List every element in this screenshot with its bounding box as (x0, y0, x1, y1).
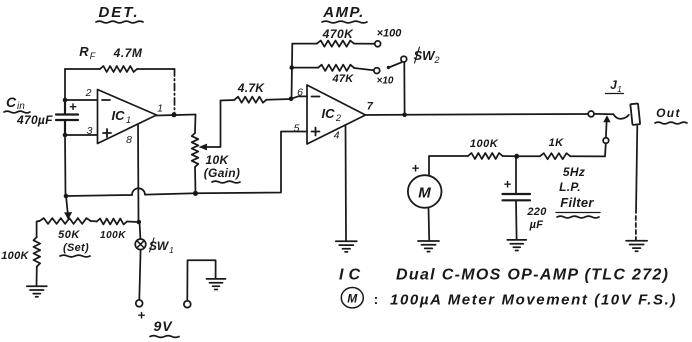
wire jack sleeve down (636, 126, 637, 213)
resistor 100K series (97, 219, 127, 225)
resistor 470K (317, 41, 354, 47)
wire bus-node arrow down to 50K wiper (66, 196, 68, 213)
wire output after circle (594, 113, 613, 115)
op-amp IC2 triangle (307, 85, 366, 144)
node IC1 pin2 junction (63, 98, 68, 103)
svg-text:1: 1 (617, 85, 621, 94)
svg-text:M: M (347, 292, 358, 306)
node LP filter junction (514, 154, 519, 159)
node bus left (64, 194, 69, 199)
svg-text:10K: 10K (206, 153, 230, 167)
svg-text:100K: 100K (1, 250, 29, 262)
wire to IC1 pin 3 (65, 134, 97, 136)
svg-text:8: 8 (126, 134, 132, 146)
wire RF feedback right vertical (dash-dot) (174, 69, 176, 114)
wire output long to jack (405, 113, 588, 116)
terminal X10 (374, 68, 380, 74)
svg-text:IC: IC (322, 106, 336, 121)
svg-text:7: 7 (367, 101, 374, 113)
svg-text:2: 2 (335, 113, 341, 123)
node SW1 junction (137, 220, 142, 225)
svg-text:1: 1 (126, 115, 131, 125)
op-amp IC2 minus input (312, 96, 320, 98)
svg-text:4.7M: 4.7M (113, 46, 143, 60)
terminal battery minus (184, 301, 191, 308)
ground meter (418, 241, 439, 252)
jack J1 body (630, 103, 640, 124)
wire Cin bottom to bus (64, 135, 67, 196)
svg-text:2: 2 (85, 87, 92, 99)
svg-text:220: 220 (526, 206, 547, 218)
node SW2 output junction (402, 113, 407, 118)
potentiometer 50K (set) (40, 218, 91, 224)
wire 4.7K left stub (221, 99, 235, 102)
resistor RF 4.7M (100, 66, 137, 72)
node IC2 pin6 junction (289, 97, 294, 102)
svg-text:(Set): (Set) (63, 242, 89, 254)
svg-text::: : (374, 291, 379, 307)
wire 470K right stub (354, 43, 375, 45)
wire meter top (429, 156, 468, 176)
ground jack sleeve (626, 241, 647, 252)
wire meter bottom (428, 208, 431, 240)
wire IC2 output (366, 114, 405, 116)
switch SW1 (circle-X) (135, 239, 146, 250)
svg-text:100K: 100K (100, 230, 126, 241)
wire bus left segment (66, 195, 132, 196)
wire 50K left bend (37, 221, 40, 237)
svg-text:470µF: 470µF (16, 113, 53, 127)
svg-text:×100: ×100 (377, 28, 403, 40)
wire 100K left to ground (36, 267, 38, 286)
resistor 100K meter (468, 153, 503, 159)
wire RF feedback top right (137, 68, 175, 70)
svg-text:L.P.: L.P. (559, 180, 581, 194)
terminal open circle LP output (603, 138, 609, 144)
svg-text:×10: ×10 (377, 76, 394, 87)
op-amp IC1 plus input (103, 129, 111, 137)
wire IC1 pin 8 down (137, 124, 140, 222)
svg-text:C: C (6, 94, 17, 110)
svg-text:1: 1 (169, 246, 173, 255)
svg-text:470K: 470K (322, 27, 355, 41)
wire IC1 output (157, 115, 196, 116)
ground 100K left (27, 286, 47, 297)
wire 4.7K right stub (267, 98, 292, 101)
wire 100K to SW1 node (127, 221, 139, 224)
capacitor Cin (56, 100, 78, 135)
svg-text:IC: IC (112, 108, 126, 123)
wire SW1 to battery plus (139, 250, 140, 300)
op-amp IC2 plus input (312, 128, 320, 136)
svg-text:2: 2 (433, 55, 439, 65)
svg-text:(Gain): (Gain) (204, 166, 240, 180)
svg-text:µF: µF (529, 219, 544, 231)
svg-text:9V: 9V (153, 318, 173, 334)
wire bus middle segment (145, 193, 196, 194)
wire feedback bus vertical (291, 44, 294, 99)
svg-text:6: 6 (297, 87, 303, 99)
svg-text:Out: Out (656, 106, 681, 120)
svg-text:F: F (90, 51, 96, 61)
svg-text:+: + (69, 99, 77, 114)
wire LP up arrow (605, 122, 608, 138)
wire SW2 pole down to output (403, 62, 405, 115)
capacitor 220uF (503, 194, 531, 200)
switch SW2 lever (389, 62, 402, 67)
wire 100K to node (503, 155, 517, 157)
svg-text:4.7K: 4.7K (237, 81, 266, 95)
potentiometer 10K (gain) (192, 133, 199, 167)
svg-text:AMP.: AMP. (322, 4, 365, 21)
resistor 1K (540, 153, 570, 159)
wire hook into jack J1 (614, 114, 629, 119)
wire IC2 pin 4 down (345, 125, 348, 241)
svg-text:M: M (418, 185, 431, 202)
pot 10K wiper arrow (205, 101, 221, 148)
terminal X100 (375, 41, 381, 47)
ground IC2 pin4 (336, 241, 357, 252)
svg-text:DET.: DET. (98, 4, 139, 21)
svg-text:1K: 1K (549, 137, 564, 149)
op-amp IC1 triangle (98, 90, 157, 144)
wire RF feedback top left (65, 68, 100, 70)
svg-text:R: R (79, 44, 89, 59)
wire to IC2 pin 6 (291, 96, 307, 98)
resistor 47K (318, 65, 354, 71)
svg-text:+: + (412, 161, 420, 176)
capacitor 220uF wire top (515, 156, 517, 192)
legend M line (341, 288, 363, 308)
ground battery return (207, 279, 226, 290)
meter M movement (408, 175, 442, 208)
svg-text:3: 3 (87, 125, 93, 137)
wire 47K left stub (292, 67, 318, 69)
node bus at 10K pot bottom (193, 191, 198, 196)
wire battery minus up and over (187, 260, 215, 301)
wire 1K right and up (570, 143, 606, 156)
op-amp IC1 minus input (102, 99, 110, 101)
resistor 4.7K (235, 97, 267, 103)
wire to IC1 pin 2 (65, 99, 97, 101)
svg-text:+: + (138, 308, 146, 323)
svg-text:4: 4 (334, 130, 340, 142)
svg-text:5Hz: 5Hz (563, 165, 585, 179)
node IC1 output (172, 112, 177, 117)
node 47K left junction (290, 65, 295, 70)
svg-text:5: 5 (294, 123, 300, 135)
ground capacitor 220uF (507, 240, 526, 251)
wire output down to 10K pot (194, 115, 197, 134)
svg-text:47K: 47K (331, 73, 354, 85)
svg-text:J: J (610, 78, 617, 92)
wire 1K left stub (517, 155, 540, 157)
node IC1 pin3 junction (63, 133, 68, 138)
svg-text:100K: 100K (470, 138, 499, 150)
svg-text:50K: 50K (58, 229, 80, 241)
switch SW2 pole (401, 56, 407, 62)
terminal open circle on output wire (588, 111, 594, 117)
svg-text:Dual C-MOS OP-AMP (TLC 272): Dual C-MOS OP-AMP (TLC 272) (396, 267, 669, 284)
resistor 100K left (34, 237, 41, 267)
svg-text:+: + (504, 177, 512, 192)
terminal battery plus (136, 300, 143, 307)
wire between 50K and 100K (91, 220, 97, 222)
wire bus right segment (196, 132, 308, 194)
svg-text:IC: IC (339, 267, 365, 284)
svg-text:100µA Meter Movement (10V F.S.: 100µA Meter Movement (10V F.S.) (390, 292, 677, 309)
wire 470K left stub (292, 43, 317, 45)
wire RF feedback left vertical (64, 69, 66, 100)
wire bus hop over pin8 wire (132, 188, 145, 195)
wire 47K right stub (354, 68, 374, 70)
svg-text:1: 1 (157, 103, 163, 115)
wire node to SW1 (139, 222, 142, 239)
svg-text:Filter: Filter (560, 195, 594, 210)
